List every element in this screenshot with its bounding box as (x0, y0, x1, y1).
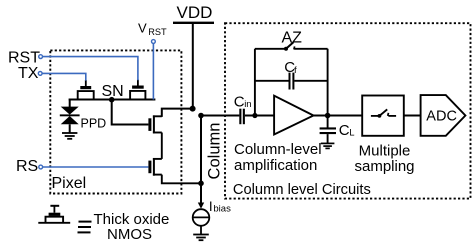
terminal RST (39, 55, 43, 59)
svg-text:Column-level: Column-level (234, 141, 322, 158)
svg-text:C: C (234, 93, 245, 110)
switch (multiple sampling) (371, 109, 396, 117)
svg-text:bias: bias (213, 204, 231, 215)
terminal VRST (152, 40, 156, 44)
equivalence sign (78, 222, 92, 233)
capacitor Cin (239, 109, 245, 125)
column level circuits dashed box (225, 23, 471, 198)
wire box to ADC (404, 115, 421, 117)
svg-text:PPD: PPD (81, 116, 107, 130)
svg-text:ADC: ADC (426, 109, 457, 125)
svg-text:NMOS: NMOS (107, 226, 152, 243)
svg-text:AZ: AZ (282, 29, 303, 46)
switch AZ (255, 42, 328, 51)
wire VRST (blue) (152, 43, 154, 99)
wire Cin to amp (245, 115, 274, 117)
wire SF source to RS drain (161, 133, 163, 159)
wire SN rail (69, 99, 156, 101)
node amp output (325, 113, 331, 119)
wire SF drain to VDD (162, 109, 193, 117)
terminal RS (39, 165, 43, 169)
svg-text:RS: RS (16, 158, 38, 175)
wire feedback left vertical (254, 49, 256, 116)
node column top (198, 113, 204, 119)
svg-text:L: L (349, 128, 354, 139)
wire amp output (314, 115, 363, 117)
node amp input (252, 113, 257, 118)
svg-text:sampling: sampling (354, 158, 414, 175)
svg-text:amplification: amplification (234, 157, 317, 174)
column bus vertical wire (200, 116, 202, 208)
ground (CL) (321, 143, 335, 148)
svg-text:RST: RST (8, 49, 40, 66)
svg-text:VDD: VDD (177, 3, 213, 22)
ground (PPD) (62, 133, 77, 139)
transistor TX (thick oxide) (78, 80, 94, 99)
VDD supply rail (173, 22, 214, 24)
svg-text:SN: SN (102, 83, 124, 100)
svg-text:Column: Column (206, 123, 224, 180)
svg-text:V: V (138, 21, 147, 36)
current source Ibias (193, 203, 210, 235)
transistor SF source follower (148, 115, 161, 133)
wire TX gate (blue) (42, 73, 86, 80)
wire VDD vertical (192, 24, 194, 109)
photodiode PPD (60, 99, 80, 133)
terminal TX (38, 72, 42, 76)
svg-text:in: in (244, 99, 251, 110)
svg-text:C: C (339, 122, 350, 139)
capacitor CL (320, 116, 336, 144)
capacitor Cf (255, 73, 328, 90)
node SN (109, 97, 115, 103)
ADC block (421, 95, 466, 136)
node VDD-SF drain junction (190, 106, 196, 112)
svg-text:f: f (294, 65, 297, 76)
wire RS source to column (162, 175, 201, 184)
node column-RS junction (198, 181, 204, 187)
svg-text:Multiple: Multiple (359, 142, 411, 159)
legend thick oxide NMOS symbol (38, 206, 70, 223)
ground (Ibias) (193, 235, 209, 241)
svg-text:I: I (209, 199, 213, 214)
svg-text:Column level Circuits: Column level Circuits (233, 182, 371, 198)
wire RS gate (blue) (42, 166, 148, 168)
svg-text:RST: RST (148, 27, 167, 37)
wire SN to SF gate (112, 100, 149, 125)
transistor RS (148, 158, 161, 176)
multiple sampling box (362, 96, 404, 136)
transistor RST (thick oxide) (130, 80, 145, 99)
svg-text:Pixel: Pixel (52, 175, 87, 192)
pixel dashed box (50, 50, 181, 193)
wire feedback right vertical (327, 49, 329, 116)
wire RST gate (blue) (43, 57, 138, 81)
op-amp U1 (274, 96, 313, 135)
svg-text:TX: TX (18, 65, 39, 82)
wire column to Cin (201, 115, 239, 117)
